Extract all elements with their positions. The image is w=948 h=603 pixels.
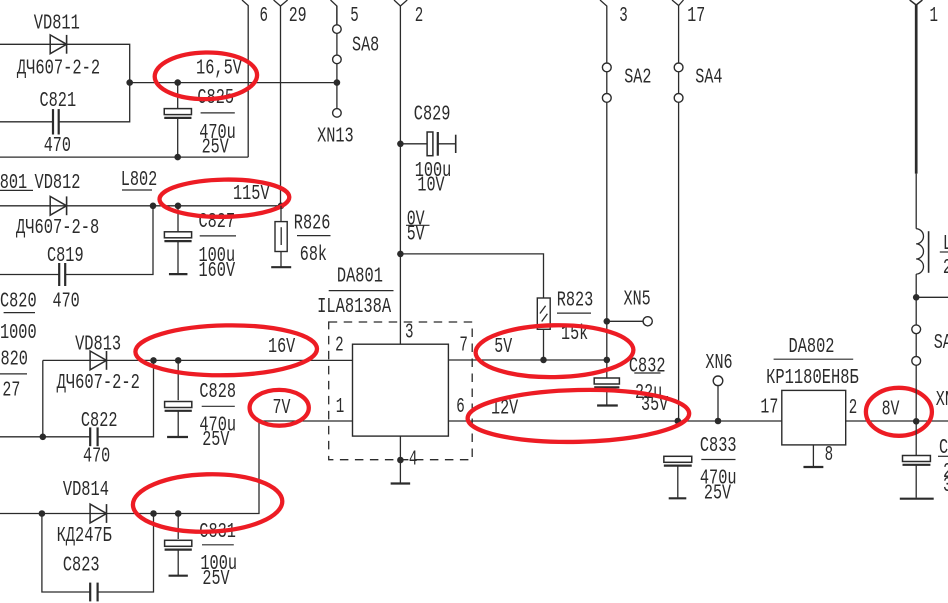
svg-text:25V: 25V xyxy=(202,429,229,452)
svg-text:L803: L803 xyxy=(943,233,948,256)
label C834 underline xyxy=(938,455,948,457)
svg-text:7: 7 xyxy=(459,334,468,357)
node C827 tap xyxy=(175,203,182,210)
red ellipse 5V xyxy=(475,324,634,379)
red ellipse 7V xyxy=(250,390,309,426)
switch SA2 xyxy=(602,63,611,72)
svg-text:5V: 5V xyxy=(407,223,425,246)
node C831 tap xyxy=(175,510,182,517)
node C833/pin17 junction xyxy=(675,418,682,425)
node VD813 output xyxy=(150,357,157,364)
svg-text:XN7: XN7 xyxy=(936,389,948,412)
label R820 underline xyxy=(0,373,27,375)
connector pin 6 (top) xyxy=(242,0,248,157)
svg-text:XN13: XN13 xyxy=(317,125,354,148)
svg-text:XN6: XN6 xyxy=(705,352,732,375)
svg-text:L802: L802 xyxy=(121,169,158,192)
svg-text:SA4: SA4 xyxy=(695,67,722,90)
svg-text:3: 3 xyxy=(405,322,414,345)
label L803 underline xyxy=(940,251,948,253)
capacitor C834 xyxy=(915,421,917,455)
node C825 tap xyxy=(174,79,181,86)
svg-text:2: 2 xyxy=(849,397,858,420)
ground of C828 xyxy=(167,436,188,438)
node C825 return xyxy=(174,154,181,161)
svg-text:C828: C828 xyxy=(199,381,236,404)
node R823/5V junction xyxy=(540,357,547,364)
node inductor output xyxy=(913,294,920,301)
svg-text:8V: 8V xyxy=(882,398,900,421)
wire 8V rail xyxy=(846,420,948,422)
svg-text:C821: C821 xyxy=(40,90,77,113)
pin 8 ground lead of DA802 xyxy=(812,445,814,466)
capacitor C825 xyxy=(177,83,179,109)
connector pin 2 (top) xyxy=(394,0,407,6)
label C827 underline xyxy=(200,235,236,237)
svg-text:C820: C820 xyxy=(0,291,37,314)
capacitor C832 xyxy=(606,360,608,378)
node SA8 junction xyxy=(334,79,341,86)
connector XN6 xyxy=(713,376,723,386)
ground of C832 xyxy=(597,404,618,406)
svg-text:6: 6 xyxy=(456,396,465,419)
connector pin 29 (top) xyxy=(274,0,288,6)
svg-text:5: 5 xyxy=(350,5,359,28)
svg-text:27: 27 xyxy=(2,380,20,403)
diode VD814 xyxy=(90,504,106,523)
svg-text:35V: 35V xyxy=(943,475,948,498)
label C833 underline xyxy=(701,459,735,461)
connector pin 3 (top) xyxy=(600,0,607,360)
svg-text:8: 8 xyxy=(825,444,834,467)
label L802 underline xyxy=(122,189,152,191)
svg-text:4: 4 xyxy=(409,448,418,471)
wire 115V rail xyxy=(0,205,281,207)
connector pin 1 (top) xyxy=(910,0,923,5)
svg-text:115V: 115V xyxy=(233,183,270,206)
ground of C833 xyxy=(669,497,687,499)
svg-text:17: 17 xyxy=(760,397,778,420)
label 0V/5V fraction bar xyxy=(406,224,430,226)
resistor R823 xyxy=(537,298,550,329)
svg-text:470: 470 xyxy=(44,135,71,158)
svg-text:1000: 1000 xyxy=(0,322,37,345)
label C831 underline xyxy=(202,544,234,546)
red ellipse VD814 output xyxy=(132,472,283,533)
capacitor C821 xyxy=(52,109,54,134)
wire VD811 loop (anode feed, right side, C821 return) xyxy=(0,44,130,122)
wire to R823 xyxy=(400,254,543,298)
svg-text:16,5V: 16,5V xyxy=(196,58,242,81)
red ellipse 115V xyxy=(159,178,289,217)
capacitor C833 xyxy=(664,456,692,462)
svg-text:XN5: XN5 xyxy=(624,289,651,312)
svg-text:ДЧ607-2-2: ДЧ607-2-2 xyxy=(17,58,100,81)
capacitor C829 xyxy=(400,143,427,145)
op-amp/regulator IC DA801 dashed outline xyxy=(329,322,473,460)
capacitor C819 xyxy=(58,263,60,286)
wire 16V rail xyxy=(43,359,353,361)
svg-text:C833: C833 xyxy=(700,435,737,458)
svg-text:68k: 68k xyxy=(300,244,327,267)
label C828 underline xyxy=(202,405,235,407)
capacitor C828 xyxy=(177,360,179,400)
ground of C834 xyxy=(900,498,934,500)
svg-text:2: 2 xyxy=(335,334,344,357)
node VD814 output xyxy=(150,510,157,517)
node C828 tap xyxy=(175,357,182,364)
node C829 tap xyxy=(397,141,404,148)
ground of C831 xyxy=(169,575,188,577)
switch SA8 xyxy=(336,6,338,109)
wire 16.5V rail xyxy=(130,82,337,84)
svg-text:7V: 7V xyxy=(273,397,291,420)
svg-text:R826: R826 xyxy=(294,212,331,235)
ground of DA801 xyxy=(391,482,411,484)
svg-text:DA802: DA802 xyxy=(789,336,835,359)
pin 4 ground lead of DA801 xyxy=(399,436,401,483)
svg-text:29: 29 xyxy=(289,5,307,28)
capacitor C822 xyxy=(89,427,91,446)
svg-text:25u: 25u xyxy=(943,257,948,280)
red ellipse 16,5V xyxy=(154,52,257,100)
wire 12V rail (pin 6) xyxy=(448,420,781,422)
svg-text:VD811: VD811 xyxy=(34,13,80,36)
ground of C827 xyxy=(169,273,188,275)
svg-text:КР1180ЕН8Б: КР1180ЕН8Б xyxy=(766,367,859,390)
label DA802 underline xyxy=(774,358,854,360)
svg-text:C832: C832 xyxy=(629,355,666,378)
svg-text:C819: C819 xyxy=(47,245,84,268)
svg-text:17: 17 xyxy=(687,5,705,28)
svg-text:SA8: SA8 xyxy=(352,34,379,57)
svg-text:R820: R820 xyxy=(0,348,28,371)
capacitor C823 xyxy=(89,583,91,602)
node VD811 output xyxy=(126,79,133,86)
red ellipse 16V xyxy=(135,324,317,377)
IC DA801 body xyxy=(353,344,449,436)
svg-text:25V: 25V xyxy=(202,568,229,591)
label R823 underline xyxy=(557,312,591,314)
svg-text:КД247Б: КД247Б xyxy=(57,525,113,548)
wire inductor output / branch xyxy=(915,274,917,421)
switch SA4 xyxy=(674,63,683,72)
node R823 branch xyxy=(397,251,404,258)
svg-text:2: 2 xyxy=(415,5,424,28)
connector XN13 xyxy=(333,109,342,118)
ground of DA802 xyxy=(803,466,823,468)
connector pin 17 (top) xyxy=(672,0,684,6)
label R826 underline xyxy=(297,235,331,237)
svg-text:25V: 25V xyxy=(202,137,229,160)
connector XN5 xyxy=(604,318,611,325)
wire VD812 loop / C819 return xyxy=(65,206,153,275)
svg-text:3: 3 xyxy=(619,5,628,28)
node VD812 output xyxy=(150,203,157,210)
svg-text:VD814: VD814 xyxy=(63,479,109,502)
diode VD812 xyxy=(50,196,66,215)
node 8V junction xyxy=(913,418,920,425)
inductor L803 xyxy=(916,229,923,274)
node winding tap row3 xyxy=(40,434,47,441)
svg-text:470: 470 xyxy=(83,446,110,469)
svg-text:16V: 16V xyxy=(268,336,295,359)
svg-text:ILA8138A: ILA8138A xyxy=(317,296,391,319)
label C820 underline xyxy=(4,312,35,314)
resistor R826 xyxy=(280,206,282,222)
svg-text:10V: 10V xyxy=(417,175,444,198)
wire row1 return xyxy=(0,156,248,158)
switch SA6 (clipped label) xyxy=(912,325,921,334)
red ellipse 12V xyxy=(467,387,690,444)
label L801 underline xyxy=(0,189,33,191)
svg-text:VD812: VD812 xyxy=(35,172,81,195)
svg-text:1: 1 xyxy=(930,5,939,28)
svg-text:VD813: VD813 xyxy=(75,334,121,357)
diode VD811 xyxy=(50,35,66,54)
diode VD813 xyxy=(90,351,106,370)
label C832 underline xyxy=(634,372,660,374)
red ellipse 8V xyxy=(866,388,932,436)
svg-text:SA6: SA6 xyxy=(934,332,948,355)
wire branch to right edge xyxy=(916,296,948,298)
svg-text:1: 1 xyxy=(336,396,345,419)
voltage regulator IC DA802 body xyxy=(782,390,846,445)
svg-text:SA2: SA2 xyxy=(624,67,651,90)
svg-text:DA801: DA801 xyxy=(337,266,383,289)
svg-text:25V: 25V xyxy=(704,483,731,506)
node C832 tap xyxy=(604,357,611,364)
svg-text:C829: C829 xyxy=(414,103,451,126)
wire VD813 loop / C822 return xyxy=(42,360,44,436)
connector pin 5 (top) xyxy=(331,0,337,25)
capacitor C827 xyxy=(177,206,179,232)
wire VD814 loop / C823 return xyxy=(42,514,90,593)
label C825 underline xyxy=(201,112,235,114)
ground of R826 xyxy=(271,266,291,268)
node pin29/R826 junction xyxy=(278,203,285,210)
wire 5V rail (pin 7) xyxy=(448,359,606,361)
svg-text:6: 6 xyxy=(260,5,269,28)
wire VD814 rail and 7V riser xyxy=(0,421,353,514)
svg-text:ДЧ607-2-2: ДЧ607-2-2 xyxy=(57,372,140,395)
node winding tap row4 xyxy=(39,510,46,517)
svg-text:L801: L801 xyxy=(0,172,27,195)
svg-text:ДЧ607-2-8: ДЧ607-2-8 xyxy=(16,217,99,240)
svg-text:C823: C823 xyxy=(63,555,100,578)
node XN6 junction xyxy=(715,418,722,425)
svg-text:160V: 160V xyxy=(199,260,236,283)
svg-text:C822: C822 xyxy=(81,410,118,433)
capacitor C831 xyxy=(177,514,179,540)
label DA801 underline xyxy=(329,290,394,292)
svg-text:R823: R823 xyxy=(557,290,594,313)
svg-text:470: 470 xyxy=(53,291,80,314)
svg-text:5V: 5V xyxy=(494,336,512,359)
